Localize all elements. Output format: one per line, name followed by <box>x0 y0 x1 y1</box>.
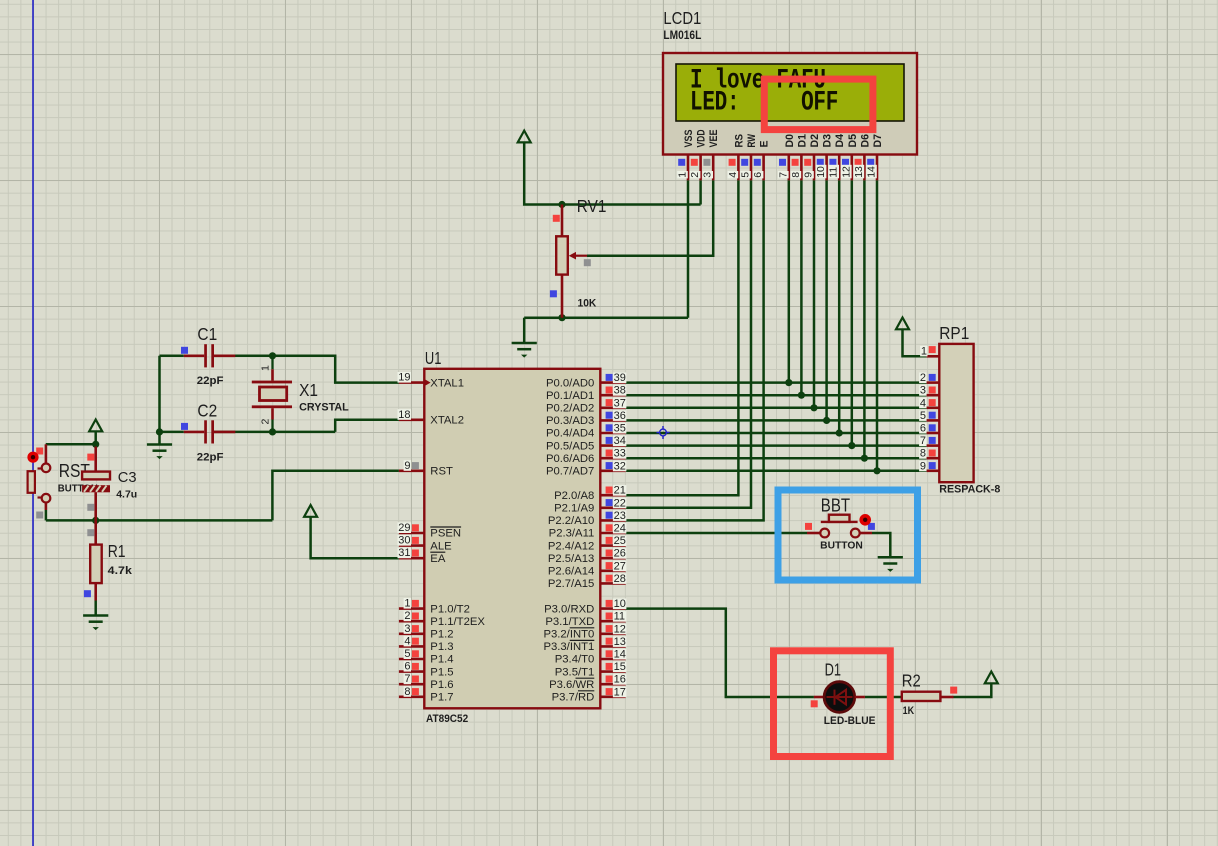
svg-text:1: 1 <box>677 172 689 178</box>
wire C1 C2 ground leg <box>158 356 161 445</box>
svg-text:31: 31 <box>398 547 410 559</box>
svg-text:9: 9 <box>920 460 926 472</box>
wire LCD E to P2.2 <box>626 180 764 520</box>
node C2 left junction <box>156 428 163 435</box>
power symbol VCC near RV1 <box>518 131 531 143</box>
LCD pins 1-14 stubs, state squares and pin numbers <box>677 155 878 181</box>
svg-text:1: 1 <box>921 345 927 357</box>
svg-text:EA: EA <box>430 553 446 565</box>
wire RST to chip <box>272 471 399 521</box>
svg-text:30: 30 <box>398 535 410 547</box>
svg-text:8: 8 <box>920 448 926 460</box>
svg-text:P2.3/A11: P2.3/A11 <box>549 528 595 540</box>
svg-text:2: 2 <box>920 372 926 384</box>
annotation red circle on BBT <box>859 514 871 526</box>
wire P0.5 bus <box>626 444 927 447</box>
svg-text:22pF: 22pF <box>197 375 224 387</box>
svg-text:33: 33 <box>614 448 626 460</box>
wire P0.6 bus <box>626 457 927 460</box>
svg-text:P2.6/A14: P2.6/A14 <box>548 566 594 578</box>
svg-text:5: 5 <box>740 172 752 178</box>
svg-text:12: 12 <box>614 623 626 635</box>
node AD4 junction <box>836 429 843 436</box>
ground below C1 C2 <box>147 445 172 451</box>
svg-text:27: 27 <box>614 560 626 572</box>
node X1 pin1 junction <box>269 352 276 359</box>
svg-text:U1: U1 <box>425 348 442 368</box>
svg-text:P2.7/A15: P2.7/A15 <box>548 578 594 590</box>
annotation blue rectangle around BBT <box>778 490 918 580</box>
svg-text:D3: D3 <box>822 134 834 148</box>
node RV1 top junction <box>558 201 565 208</box>
annotation red rectangle around D1 <box>774 651 891 757</box>
svg-text:4: 4 <box>920 397 926 409</box>
svg-text:29: 29 <box>398 522 410 534</box>
power symbol at EA <box>304 505 317 517</box>
svg-text:4: 4 <box>727 172 739 178</box>
svg-text:2: 2 <box>260 419 272 425</box>
svg-text:D2: D2 <box>809 134 821 148</box>
svg-text:16: 16 <box>614 674 626 686</box>
push button BBT <box>807 515 872 538</box>
svg-text:P3.4/T0: P3.4/T0 <box>555 654 595 666</box>
svg-text:13: 13 <box>614 636 626 648</box>
wire P0.4 bus <box>626 432 927 435</box>
svg-text:23: 23 <box>614 510 626 522</box>
svg-text:21: 21 <box>614 485 626 497</box>
annotation red circle on RST <box>27 452 38 463</box>
svg-text:2: 2 <box>404 610 410 622</box>
push button RST <box>28 444 51 510</box>
svg-text:22pF: 22pF <box>197 451 224 463</box>
svg-text:P3.7/RD: P3.7/RD <box>552 692 595 704</box>
wire R2 to power <box>954 683 992 697</box>
svg-text:P3.2/INT0: P3.2/INT0 <box>543 629 594 641</box>
svg-text:8: 8 <box>404 686 410 698</box>
wire VCC to RST button top <box>46 443 96 446</box>
RP1 pin 1 <box>920 345 939 357</box>
node AD1 junction <box>798 392 805 399</box>
svg-text:VEE: VEE <box>708 130 720 148</box>
svg-text:P1.0/T2: P1.0/T2 <box>430 603 470 615</box>
svg-text:12: 12 <box>840 166 852 178</box>
power symbol at RP1 <box>896 318 909 330</box>
svg-text:2: 2 <box>689 172 701 178</box>
svg-text:3: 3 <box>404 623 410 635</box>
svg-text:LED-BLUE: LED-BLUE <box>824 715 876 727</box>
wire LCD D0 down <box>788 180 791 382</box>
svg-text:28: 28 <box>614 573 626 585</box>
svg-text:P0.3/AD3: P0.3/AD3 <box>546 415 594 427</box>
svg-text:P3.5/T1: P3.5/T1 <box>555 666 595 678</box>
wire BBT to ground <box>872 533 890 557</box>
power symbol at R2 <box>985 672 998 684</box>
svg-text:1K: 1K <box>903 705 915 717</box>
svg-text:C3: C3 <box>118 469 137 486</box>
svg-text:7: 7 <box>777 172 789 178</box>
ground below R1 <box>83 616 108 622</box>
svg-text:D7: D7 <box>872 134 884 148</box>
svg-text:7: 7 <box>404 673 410 685</box>
power symbol at RST <box>89 420 102 432</box>
svg-text:11: 11 <box>614 611 625 623</box>
svg-text:P1.5: P1.5 <box>430 666 453 678</box>
svg-text:37: 37 <box>614 397 626 409</box>
svg-text:8: 8 <box>790 172 802 178</box>
svg-text:7: 7 <box>920 435 926 447</box>
svg-text:9: 9 <box>803 172 815 178</box>
wire LCD RS to P2.0 <box>626 180 739 495</box>
resistor R1 4.7k <box>90 545 102 601</box>
wire C2 to X1 node <box>214 431 335 434</box>
capacitor C1 22pF <box>184 344 236 367</box>
annotation red rectangle on LCD OFF text <box>764 79 873 130</box>
svg-text:15: 15 <box>614 661 626 673</box>
svg-text:P3.1/TXD: P3.1/TXD <box>545 616 594 628</box>
svg-text:XTAL1: XTAL1 <box>430 377 464 389</box>
svg-text:10K: 10K <box>578 298 597 310</box>
svg-text:6: 6 <box>920 423 926 435</box>
U1 left side pins with numbers and names <box>398 372 486 704</box>
wire R1 to ground <box>94 601 97 616</box>
svg-text:RW: RW <box>746 134 758 148</box>
svg-text:P1.6: P1.6 <box>430 679 453 691</box>
LED D1 LED-BLUE <box>814 682 865 713</box>
svg-text:P1.1/T2EX: P1.1/T2EX <box>430 616 485 628</box>
XTAL1 pin arrow mark <box>425 379 431 385</box>
svg-text:BBT: BBT <box>821 496 850 516</box>
wire P0.1 bus <box>626 394 927 397</box>
svg-text:17: 17 <box>614 686 626 698</box>
node AD7 junction <box>873 467 880 474</box>
wire P0.2 bus <box>626 407 927 410</box>
RP1 pins 2-9 <box>919 372 939 472</box>
svg-text:P1.3: P1.3 <box>430 641 453 653</box>
ground at BBT <box>878 557 903 563</box>
wire power stem to C3 junction <box>94 431 97 446</box>
svg-text:4: 4 <box>404 635 410 647</box>
wire LCD pin2 drop <box>699 180 702 204</box>
node X1 pin2 junction <box>269 428 276 435</box>
svg-text:39: 39 <box>614 372 626 384</box>
svg-text:CRYSTAL: CRYSTAL <box>299 402 349 414</box>
wire C1 left <box>160 355 184 358</box>
node C3 bottom junction <box>92 517 99 524</box>
wire X1 to XTAL2 <box>335 420 399 432</box>
svg-text:BUTTON: BUTTON <box>820 540 863 551</box>
svg-text:R1: R1 <box>108 541 126 561</box>
svg-text:10: 10 <box>614 598 626 610</box>
wire RST button bottom leg <box>45 510 48 520</box>
svg-text:P1.7: P1.7 <box>430 692 453 704</box>
node RST top junction <box>92 441 99 448</box>
svg-text:18: 18 <box>398 409 410 421</box>
svg-text:5: 5 <box>404 648 410 660</box>
svg-text:38: 38 <box>614 385 626 397</box>
svg-text:4.7k: 4.7k <box>108 565 133 577</box>
svg-text:D4: D4 <box>834 133 846 147</box>
wire C1/X1 to XTAL1 <box>214 356 399 383</box>
wire LCD D2 down <box>813 180 816 407</box>
cursor crosshair marker <box>657 426 670 439</box>
svg-text:P2.4/A12: P2.4/A12 <box>548 540 594 552</box>
svg-text:RS: RS <box>733 134 745 148</box>
wire C2 left <box>160 431 184 434</box>
resistor pack RP1 RESPACK-8 <box>939 344 973 482</box>
potentiometer RV1 10K <box>556 205 587 318</box>
svg-text:P3.0/RXD: P3.0/RXD <box>544 603 594 615</box>
svg-text:4.7u: 4.7u <box>116 489 137 501</box>
svg-text:6: 6 <box>404 661 410 673</box>
svg-text:32: 32 <box>614 460 626 472</box>
wire P0.7 bus <box>626 470 927 473</box>
U1 right side pins with numbers and names <box>543 372 626 703</box>
crystal X1 <box>252 356 292 432</box>
svg-text:D0: D0 <box>784 134 796 148</box>
svg-text:D1: D1 <box>796 134 808 148</box>
svg-text:E: E <box>759 141 771 148</box>
svg-text:RESPACK-8: RESPACK-8 <box>939 484 1000 496</box>
svg-text:P1.2: P1.2 <box>430 629 453 641</box>
svg-text:D1: D1 <box>825 660 841 680</box>
ground below RV1 <box>512 343 537 349</box>
svg-text:3: 3 <box>702 172 714 178</box>
wire power to EA <box>311 517 399 558</box>
svg-text:P2.5/A13: P2.5/A13 <box>548 553 594 565</box>
svg-text:X1: X1 <box>299 380 318 400</box>
wire LCD D1 down <box>800 180 803 395</box>
svg-text:9: 9 <box>404 460 410 472</box>
svg-text:36: 36 <box>614 410 626 422</box>
node AD6 junction <box>861 455 868 462</box>
resistor R2 1K <box>902 692 954 701</box>
wire RST rail <box>46 519 273 522</box>
svg-text:VDD: VDD <box>696 129 708 147</box>
svg-text:14: 14 <box>614 649 626 661</box>
svg-text:RV1: RV1 <box>577 196 607 216</box>
capacitor C3 4.7u electrolytic <box>82 447 110 545</box>
svg-text:10: 10 <box>815 166 827 178</box>
svg-text:35: 35 <box>614 423 626 435</box>
svg-text:P0.1/AD1: P0.1/AD1 <box>546 390 594 402</box>
svg-text:D6: D6 <box>859 134 871 148</box>
svg-text:R2: R2 <box>902 670 921 690</box>
wire VCC to RV1 top and LCD VDD <box>524 142 700 204</box>
svg-text:11: 11 <box>828 167 840 178</box>
node RV1 bottom junction <box>558 314 565 321</box>
svg-text:1: 1 <box>404 598 410 610</box>
svg-text:19: 19 <box>398 372 410 384</box>
microcontroller U1 AT89C52 <box>424 369 600 709</box>
svg-text:6: 6 <box>752 172 764 178</box>
svg-text:P0.0/AD0: P0.0/AD0 <box>546 377 594 389</box>
svg-text:AT89C52: AT89C52 <box>426 713 468 725</box>
svg-text:P1.4: P1.4 <box>430 654 453 666</box>
wire P3.0 to D1 <box>626 609 814 697</box>
wire power to RP1 pin1 <box>903 329 927 356</box>
svg-text:P2.0/A8: P2.0/A8 <box>554 490 594 502</box>
wire RV1 bottom rail <box>524 316 688 319</box>
svg-text:22: 22 <box>614 497 626 509</box>
LCD display LCD1 LM016L <box>663 53 917 155</box>
svg-text:ALE: ALE <box>430 540 452 552</box>
svg-text:LM016L: LM016L <box>663 28 701 42</box>
wire LCD D6 down <box>863 180 866 458</box>
node AD5 junction <box>848 442 855 449</box>
svg-text:P0.2/AD2: P0.2/AD2 <box>546 403 594 415</box>
node AD3 junction <box>823 417 830 424</box>
svg-text:34: 34 <box>614 435 626 447</box>
svg-text:P0.4/AD4: P0.4/AD4 <box>546 428 594 440</box>
LCD pin name labels VSS VDD VEE RS RW E D0-D7 <box>683 129 884 147</box>
svg-text:P3.6/WR: P3.6/WR <box>549 679 594 691</box>
svg-text:1: 1 <box>260 365 272 371</box>
wire to ground <box>523 318 526 343</box>
wire LCD VSS down <box>687 180 690 317</box>
svg-text:26: 26 <box>614 548 626 560</box>
svg-text:LCD1: LCD1 <box>663 8 701 28</box>
wire P0.0 bus <box>626 381 927 384</box>
svg-text:25: 25 <box>614 535 626 547</box>
capacitor C2 22pF <box>184 420 236 443</box>
svg-text:C1: C1 <box>197 324 217 344</box>
svg-text:P2.2/A10: P2.2/A10 <box>548 515 594 527</box>
svg-text:RST: RST <box>430 466 453 478</box>
node AD0 junction <box>785 379 792 386</box>
svg-text:24: 24 <box>614 523 626 535</box>
wire LCD RW to P2.1 <box>626 180 751 508</box>
wire LCD D4 down <box>838 180 841 433</box>
svg-text:P2.1/A9: P2.1/A9 <box>554 503 594 515</box>
svg-text:P3.3/INT1: P3.3/INT1 <box>543 641 594 653</box>
wire LCD VEE to RV1 wiper <box>587 180 713 255</box>
wire LCD D3 down <box>825 180 828 420</box>
svg-text:3: 3 <box>920 385 926 397</box>
svg-text:P0.6/AD6: P0.6/AD6 <box>546 453 594 465</box>
svg-text:C2: C2 <box>197 400 217 420</box>
svg-text:XTAL2: XTAL2 <box>430 415 464 427</box>
svg-text:PSEN: PSEN <box>430 528 461 540</box>
svg-text:P0.5/AD5: P0.5/AD5 <box>546 440 594 452</box>
wire P2.3 to BBT <box>626 532 807 535</box>
svg-text:5: 5 <box>920 410 926 422</box>
wire LCD D5 down <box>851 180 854 445</box>
svg-text:D5: D5 <box>847 134 859 148</box>
wire LCD D7 down <box>876 180 879 471</box>
wire D1 to R2 <box>865 696 902 699</box>
svg-text:13: 13 <box>853 166 865 178</box>
wire P0.3 bus <box>626 419 927 422</box>
node AD2 junction <box>810 404 817 411</box>
svg-text:VSS: VSS <box>683 130 695 148</box>
svg-text:P0.7/AD7: P0.7/AD7 <box>546 466 594 478</box>
svg-text:14: 14 <box>866 166 878 178</box>
sheet border blue line <box>32 0 34 846</box>
svg-text:RP1: RP1 <box>939 323 969 343</box>
